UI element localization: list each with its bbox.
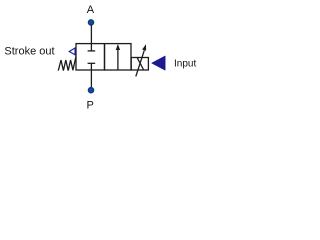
svg-text:Stroke out: Stroke out (4, 45, 54, 57)
adjustment arrowhead (142, 44, 146, 51)
svg-text:Input: Input (174, 58, 196, 69)
throttle diagonal (137, 58, 143, 70)
input solid triangle (152, 56, 166, 70)
throttle valve box (131, 58, 148, 71)
blocked port T top (left box) (88, 44, 96, 51)
pilot open triangle (stroke out) (69, 48, 75, 55)
node A port dot (88, 20, 93, 25)
return spring (58, 56, 76, 70)
valve body left box (76, 44, 105, 70)
svg-text:P: P (87, 99, 94, 111)
wire A to valve (90, 25, 92, 44)
adjustment arrow shaft (136, 50, 145, 76)
flow arrow (right box) (116, 44, 120, 70)
node P port dot (88, 88, 93, 93)
svg-text:A: A (87, 4, 95, 16)
blocked port T bottom (left box) (88, 63, 96, 70)
valve body right box (105, 44, 132, 70)
wire valve to P (90, 70, 92, 87)
